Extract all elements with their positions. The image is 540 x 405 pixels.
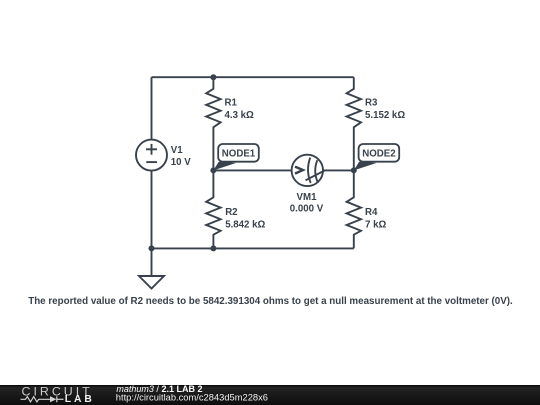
node junction dot bottom mid (210, 245, 216, 251)
logo resistor zigzag and diode (21, 396, 64, 402)
wire top horizontal (152, 76, 354, 78)
node junction dot bottom left (149, 245, 155, 251)
svg-text:R1: R1 (225, 98, 238, 109)
svg-text:4.3 kΩ: 4.3 kΩ (225, 110, 255, 121)
svg-text:NODE1: NODE1 (222, 149, 256, 160)
wire left vertical upper (151, 77, 153, 139)
svg-text:R3: R3 (365, 98, 378, 109)
voltage source V1 (136, 140, 167, 171)
wire middle horizontal left (213, 169, 291, 171)
resistor R2 (206, 170, 220, 248)
node junction dot NODE2 (351, 167, 357, 173)
svg-text:The reported value of R2 needs: The reported value of R2 needs to be 584… (28, 296, 513, 307)
resistor R1 (206, 77, 220, 170)
svg-text:http://circuitlab.com/c2843d5m: http://circuitlab.com/c2843d5m228x6 (116, 393, 268, 403)
svg-text:NODE2: NODE2 (362, 149, 395, 160)
wire bottom horizontal (152, 247, 354, 249)
svg-text:7 kΩ: 7 kΩ (365, 220, 386, 231)
wire middle horizontal right (323, 169, 354, 171)
svg-text:LAB: LAB (65, 394, 95, 405)
svg-text:10 V: 10 V (171, 157, 191, 168)
svg-text:0.000 V: 0.000 V (290, 203, 324, 214)
svg-text:5.842 kΩ: 5.842 kΩ (225, 220, 265, 231)
node NODE2 callout (354, 144, 399, 170)
ground (151, 248, 153, 276)
svg-text:VM1: VM1 (297, 192, 318, 203)
wire left vertical lower (151, 171, 153, 249)
svg-text:R4: R4 (365, 207, 378, 218)
node junction dot top (210, 74, 216, 80)
svg-text:R2: R2 (225, 207, 237, 218)
voltmeter VM1 (292, 155, 323, 186)
svg-text:V1: V1 (171, 145, 183, 156)
node NODE1 callout (213, 144, 258, 170)
resistor R4 (347, 170, 361, 248)
svg-text:5.152 kΩ: 5.152 kΩ (365, 110, 405, 121)
resistor R3 (347, 77, 361, 170)
node junction dot NODE1 (210, 167, 216, 173)
